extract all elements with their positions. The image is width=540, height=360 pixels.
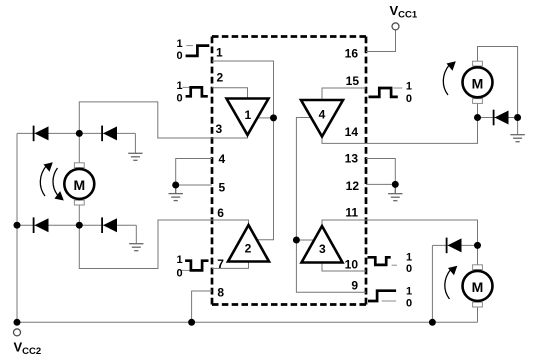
wire flyback diode row motor M2	[478, 117, 518, 119]
ground symbol pins 4-5	[169, 185, 183, 201]
wire to ground motor M2	[517, 118, 519, 135]
motor M3 top brush cap	[473, 265, 483, 270]
svg-text:0: 0	[177, 93, 183, 105]
node junction diode D6 on rail	[429, 319, 436, 326]
svg-text:0: 0	[406, 297, 412, 309]
svg-text:VCC1: VCC1	[390, 3, 418, 21]
rotation arrow M1 ccw	[40, 162, 53, 196]
waveform input pin2 level-1 reference dash	[183, 86, 190, 88]
wire pin14 output 4Y from driver 4 apex to motor M2	[322, 103, 478, 143]
wire top diode row left motor	[17, 132, 135, 134]
motor M2 body	[463, 67, 493, 97]
IC U1 dashed outline left edge	[211, 37, 214, 305]
svg-text:M: M	[472, 279, 484, 295]
wire diode D4 to ground	[135, 225, 137, 244]
svg-text:3: 3	[319, 242, 326, 256]
svg-text:1: 1	[406, 80, 412, 92]
ground symbol pins 12-13	[388, 184, 402, 200]
svg-text:3: 3	[216, 122, 223, 136]
svg-text:1: 1	[177, 80, 183, 92]
op-amp driver 4	[301, 100, 343, 137]
node junction motor M1 bottom	[76, 222, 83, 229]
wire pin2 input 1A to driver 1	[212, 88, 248, 99]
ground symbol under diode D4	[129, 244, 143, 251]
node junction motor M3 top	[474, 242, 481, 249]
wire motor M2 top loop to ground side	[478, 47, 518, 118]
svg-text:13: 13	[345, 151, 359, 165]
waveform input pin9 step	[368, 291, 396, 301]
svg-text:0: 0	[177, 50, 183, 62]
node junction diode D5 cathode	[514, 114, 521, 121]
wire VCC2 bottom rail	[17, 321, 478, 323]
wire pin9 enable net to drivers 3 and 4	[296, 118, 366, 293]
ground symbol under diode D2	[128, 153, 142, 160]
svg-text:1: 1	[406, 286, 412, 298]
svg-text:1: 1	[244, 108, 251, 122]
wire pin4 to ground node	[176, 159, 212, 186]
waveform input pin10 level-0 reference dash	[392, 264, 397, 266]
motor M2 bottom brush cap	[473, 99, 483, 104]
VCC1 terminal circle	[392, 23, 399, 30]
wire pin3 output 1Y from driver 1 apex	[212, 135, 248, 138]
wire pin3 to motor M1 top node	[79, 102, 212, 138]
wire diode D6 to VCC2 rail	[431, 245, 433, 322]
svg-text:11: 11	[345, 206, 358, 220]
wire VCC2 left riser	[16, 133, 18, 322]
motor M3 bottom brush cap	[473, 302, 483, 307]
svg-text:10: 10	[345, 258, 359, 272]
wire pin15 input 4A to driver 4	[322, 88, 366, 100]
svg-text:M: M	[472, 75, 484, 91]
waveform input pin7 inverted pulse	[185, 261, 208, 271]
diode D4 bottom-right	[102, 217, 117, 233]
svg-text:2: 2	[245, 242, 252, 256]
waveform input pin7 level-0 reference dash	[182, 269, 191, 271]
rotation arrow M3	[445, 266, 458, 299]
svg-text:1: 1	[406, 251, 412, 263]
motor M3 body	[463, 271, 493, 301]
svg-text:14: 14	[345, 125, 359, 139]
wire pin8 to VCC2 rail	[192, 291, 212, 322]
motor M2 top brush cap	[473, 61, 483, 66]
motor M1 body	[64, 169, 94, 199]
svg-text:1: 1	[177, 254, 183, 266]
rotation arrow M2	[443, 61, 456, 95]
node junction rail bottom row	[14, 222, 21, 229]
svg-text:0: 0	[406, 93, 412, 105]
wire diode D2 to ground	[134, 133, 136, 153]
diode D1 top-left	[34, 126, 49, 142]
op-amp driver 3	[302, 226, 343, 263]
node junction motor M1 top	[76, 130, 83, 137]
wire pin1 enable net to drivers 1 and 2	[212, 61, 274, 240]
motor M1 top brush cap	[74, 163, 84, 168]
node junction pin8 on VCC2 rail	[188, 319, 195, 326]
wire pin12 to ground node	[366, 183, 395, 185]
wire flyback diode row motor M3	[432, 244, 477, 246]
svg-text:9: 9	[351, 278, 358, 292]
svg-text:1: 1	[216, 46, 223, 60]
wire motor M3 top lead	[477, 245, 479, 264]
node junction enable2	[293, 237, 300, 244]
diode D3 bottom-left	[34, 217, 49, 233]
node junction pins 12-13 ground	[392, 181, 399, 188]
svg-text:1: 1	[177, 38, 183, 50]
diode D2 top-right	[102, 126, 117, 142]
wire pin6 to motor M1 bottom node	[79, 220, 212, 269]
svg-text:5: 5	[219, 181, 226, 195]
VCC2 terminal circle	[14, 329, 21, 336]
IC U1 dashed outline top edge	[212, 35, 366, 38]
wire pin13 to ground node	[366, 159, 395, 185]
wire pin6 output 2Y from driver 2 apex	[212, 220, 249, 225]
node junction motor M2 bottom	[474, 114, 481, 121]
wire pin5 to ground node	[176, 184, 212, 186]
wire pin16 to VCC1 terminal	[366, 30, 396, 52]
waveform input pin9 level-0 reference dash	[382, 300, 396, 302]
svg-text:15: 15	[346, 74, 360, 88]
ground symbol motor M2	[510, 135, 524, 142]
waveform input pin15 pulse	[369, 88, 398, 97]
wire motor M1 bottom lead	[78, 205, 80, 225]
svg-text:16: 16	[345, 46, 359, 60]
node junction enable1	[270, 114, 277, 121]
svg-text:6: 6	[217, 206, 224, 220]
svg-text:7: 7	[217, 257, 224, 271]
rotation arrow M1 cw	[53, 168, 64, 201]
svg-text:M: M	[73, 177, 85, 193]
diode D6	[447, 238, 462, 254]
waveform input pin10 inverted pulse	[368, 257, 391, 265]
IC U1 dashed outline bottom edge	[212, 303, 366, 306]
op-amp driver 1	[227, 99, 269, 136]
svg-text:8: 8	[217, 286, 224, 300]
wire pin11 output 3Y from driver 3 apex to motor M3	[322, 220, 478, 245]
waveform input pin2 pulse	[186, 87, 208, 96]
svg-text:0: 0	[177, 268, 183, 280]
wire bottom diode row left motor	[17, 224, 136, 226]
svg-text:4: 4	[219, 152, 226, 166]
wire motor M3 bottom lead to rail	[477, 307, 479, 322]
node junction pins 4-5 ground	[172, 182, 179, 189]
svg-text:VCC2: VCC2	[14, 340, 42, 358]
wire pin7 input 2A to driver 2	[212, 262, 249, 269]
wire motor M1 top lead	[78, 133, 80, 162]
wire pin10 input 3A to driver 3	[322, 263, 366, 272]
waveform input pin1 level-1 reference dash	[186, 45, 193, 47]
waveform input pin15 level-1 reference dash	[393, 87, 402, 89]
svg-text:2: 2	[217, 71, 224, 85]
wire enable tap to driver 1	[258, 117, 273, 119]
op-amp driver 2	[228, 225, 269, 262]
motor M1 bottom brush cap	[74, 200, 84, 205]
node junction VCC2 rail corner	[14, 319, 21, 326]
svg-text:0: 0	[406, 263, 412, 275]
IC U1 dashed outline right edge	[365, 37, 368, 305]
svg-text:12: 12	[346, 179, 360, 193]
waveform input pin1 step	[186, 46, 210, 56]
svg-text:4: 4	[319, 108, 326, 122]
diode D5	[494, 110, 509, 126]
wire enable tap to driver 3	[296, 239, 314, 241]
